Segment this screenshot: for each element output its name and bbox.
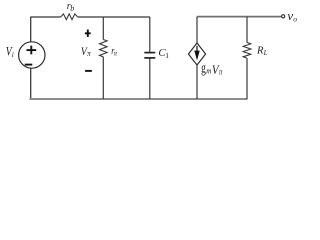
wire: dependent source branch lower <box>196 65 198 99</box>
voltage source V_i <box>19 42 45 68</box>
svg-text:b: b <box>70 4 74 13</box>
wire: R_L branch lower <box>246 58 248 99</box>
svg-text:i: i <box>12 50 14 59</box>
resistor R_L <box>243 43 251 59</box>
wire: top-left horizontal segment from V_i to r_b <box>30 16 60 18</box>
svg-text:L: L <box>263 49 268 57</box>
wire: dependent source branch upper <box>196 17 198 43</box>
wire: r_pi branch upper <box>102 17 104 40</box>
wire: left vertical from top wire to V_i source <box>30 17 32 42</box>
wire: R_L branch upper <box>246 17 248 43</box>
svg-text:m: m <box>206 66 211 76</box>
wire: r_pi branch lower <box>102 57 104 99</box>
wire: top-left horizontal segment from r_b to C_1 branch <box>78 16 150 18</box>
wire: C_1 branch upper <box>149 17 151 52</box>
svg-text:o: o <box>293 15 297 24</box>
wire: top-right horizontal rail to v_o <box>197 16 282 18</box>
dependent current source gmVpi (diamond) <box>188 43 205 65</box>
label - below V_pi <box>85 70 92 72</box>
svg-text:π: π <box>219 67 223 77</box>
svg-text:π: π <box>114 49 118 58</box>
capacitor C1 bottom plate <box>144 57 155 59</box>
wire: bottom rail <box>30 98 248 100</box>
wire: left vertical below V_i source <box>30 68 32 99</box>
label + above V_pi <box>85 32 91 34</box>
capacitor C1 top plate <box>144 52 155 54</box>
svg-text:1: 1 <box>165 51 169 60</box>
resistor r_b <box>61 14 78 20</box>
wire: C_1 branch lower <box>149 59 151 100</box>
terminal v_o <box>282 15 285 18</box>
resistor r_pi <box>100 40 108 57</box>
svg-text:π: π <box>87 49 91 59</box>
